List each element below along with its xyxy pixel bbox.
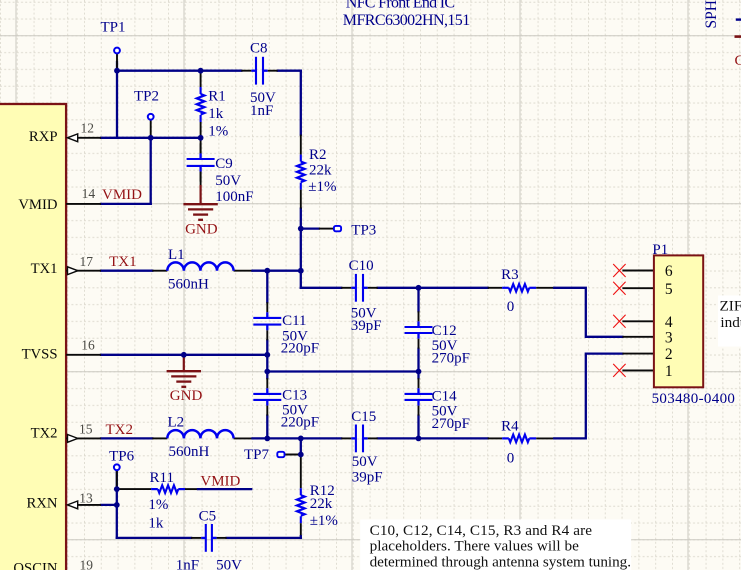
svg-text:22k: 22k bbox=[309, 163, 332, 179]
svg-text:16: 16 bbox=[81, 338, 95, 353]
svg-text:50V: 50V bbox=[215, 173, 241, 189]
svg-text:GND: GND bbox=[170, 388, 203, 404]
svg-text:TP1: TP1 bbox=[101, 20, 126, 36]
svg-text:TP3: TP3 bbox=[351, 223, 376, 239]
svg-text:270pF: 270pF bbox=[432, 416, 470, 432]
svg-text:R3: R3 bbox=[501, 267, 519, 283]
svg-text:C14: C14 bbox=[432, 388, 458, 404]
svg-text:39pF: 39pF bbox=[352, 470, 383, 486]
svg-text:placeholders. There values wil: placeholders. There values will be bbox=[370, 538, 580, 555]
svg-text:±1%: ±1% bbox=[310, 513, 338, 529]
svg-text:17: 17 bbox=[80, 254, 94, 269]
svg-text:0: 0 bbox=[507, 299, 515, 315]
svg-text:TX1: TX1 bbox=[109, 254, 137, 270]
svg-text:22k: 22k bbox=[310, 496, 333, 512]
svg-text:12: 12 bbox=[81, 120, 95, 135]
svg-text:ZIF co: ZIF co bbox=[720, 298, 741, 315]
svg-text:R11: R11 bbox=[150, 470, 174, 486]
svg-text:1nF: 1nF bbox=[250, 103, 273, 119]
svg-text:560nH: 560nH bbox=[168, 277, 209, 293]
svg-text:C10, C12, C14, C15, R3 and R4: C10, C12, C14, C15, R3 and R4 are bbox=[370, 522, 593, 539]
svg-text:560nH: 560nH bbox=[169, 444, 210, 460]
svg-text:1nF: 1nF bbox=[176, 558, 199, 570]
svg-text:L1: L1 bbox=[168, 247, 185, 263]
svg-text:NFC Front End IC: NFC Front End IC bbox=[346, 0, 455, 11]
svg-text:TX2: TX2 bbox=[31, 425, 58, 441]
svg-text:C8: C8 bbox=[250, 41, 268, 57]
svg-text:1%: 1% bbox=[208, 124, 228, 140]
svg-text:100nF: 100nF bbox=[215, 189, 253, 205]
svg-text:6: 6 bbox=[665, 263, 673, 280]
svg-text:R1: R1 bbox=[208, 89, 226, 105]
svg-text:TP6: TP6 bbox=[109, 449, 135, 465]
svg-text:C5: C5 bbox=[199, 508, 217, 524]
svg-text:induct: induct bbox=[720, 314, 741, 331]
svg-text:1k: 1k bbox=[208, 106, 224, 122]
svg-text:220pF: 220pF bbox=[281, 414, 319, 430]
svg-text:±1%: ±1% bbox=[308, 179, 336, 195]
svg-text:1k: 1k bbox=[148, 515, 164, 531]
svg-text:TX2: TX2 bbox=[106, 422, 134, 438]
svg-text:13: 13 bbox=[79, 491, 93, 506]
svg-text:4: 4 bbox=[665, 314, 673, 331]
svg-text:220pF: 220pF bbox=[281, 341, 319, 357]
svg-text:50V: 50V bbox=[352, 454, 378, 470]
svg-text:14: 14 bbox=[82, 186, 96, 201]
svg-text:MFRC63002HN,151: MFRC63002HN,151 bbox=[343, 12, 470, 29]
svg-text:3: 3 bbox=[665, 329, 673, 346]
svg-text:C: C bbox=[735, 53, 741, 69]
svg-text:TX1: TX1 bbox=[31, 261, 58, 277]
svg-text:R2: R2 bbox=[309, 147, 327, 163]
svg-text:TP7: TP7 bbox=[244, 447, 270, 463]
svg-text:503480-0400: 503480-0400 bbox=[652, 391, 735, 407]
svg-text:2: 2 bbox=[665, 346, 673, 363]
svg-text:VMID: VMID bbox=[18, 197, 58, 213]
svg-text:SPH: SPH bbox=[703, 0, 720, 28]
svg-text:VMID: VMID bbox=[102, 187, 142, 203]
svg-text:0: 0 bbox=[507, 450, 515, 466]
svg-text:VMID: VMID bbox=[200, 473, 240, 489]
svg-text:1%: 1% bbox=[148, 497, 168, 513]
svg-text:TP2: TP2 bbox=[134, 89, 159, 105]
svg-text:determined through antenna sys: determined through antenna system tuning… bbox=[370, 553, 631, 570]
svg-text:1: 1 bbox=[665, 363, 673, 380]
svg-text:C10: C10 bbox=[349, 258, 374, 274]
svg-text:L2: L2 bbox=[168, 415, 185, 431]
svg-text:C11: C11 bbox=[282, 313, 306, 329]
svg-text:R4: R4 bbox=[501, 418, 519, 434]
svg-text:19: 19 bbox=[80, 557, 94, 570]
svg-text:C12: C12 bbox=[432, 323, 457, 339]
svg-text:RXN: RXN bbox=[26, 495, 57, 511]
svg-text:OSCIN: OSCIN bbox=[13, 560, 57, 570]
svg-text:C15: C15 bbox=[351, 409, 376, 425]
svg-text:TVSS: TVSS bbox=[22, 346, 58, 362]
svg-text:50V: 50V bbox=[216, 558, 242, 570]
svg-text:GND: GND bbox=[185, 222, 218, 238]
svg-text:15: 15 bbox=[79, 422, 93, 437]
svg-text:39pF: 39pF bbox=[351, 318, 382, 334]
svg-text:RXP: RXP bbox=[29, 129, 58, 145]
svg-text:C9: C9 bbox=[215, 156, 233, 172]
svg-text:5: 5 bbox=[665, 281, 673, 298]
svg-text:C13: C13 bbox=[282, 388, 307, 404]
svg-text:P1: P1 bbox=[652, 242, 668, 258]
svg-text:270pF: 270pF bbox=[432, 350, 470, 366]
